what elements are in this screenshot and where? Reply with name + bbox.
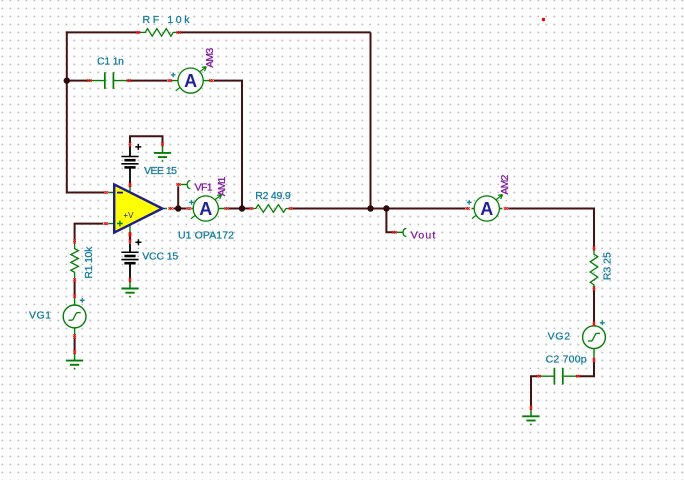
wire VEE to ground [130, 136, 163, 142]
wire noninverting input to R1 [75, 224, 104, 240]
svg-text:AM3: AM3 [204, 48, 216, 68]
node Vout branch [383, 205, 389, 211]
wire C1 left stub [67, 80, 88, 82]
wire opamp output [173, 208, 186, 210]
capacitor C2 700p [537, 354, 587, 385]
op-amp U1 OPA172 [104, 183, 234, 242]
svg-text:C1 1n: C1 1n [97, 55, 124, 67]
wire C2 to ground [531, 376, 537, 406]
ammeter AM2 [466, 174, 511, 221]
wire AM1 to R2 [229, 208, 250, 210]
svg-text:VG1: VG1 [29, 309, 51, 321]
wire R1 to VG1 [74, 282, 76, 294]
wire R3 to VG2 [593, 290, 595, 322]
wire Vout tap [386, 209, 392, 233]
svg-text:U1 OPA172: U1 OPA172 [178, 230, 234, 242]
svg-text:R3 25: R3 25 [602, 252, 614, 280]
wire VG1 to ground [74, 338, 76, 350]
node AM3 branch [239, 205, 245, 211]
resistor R2 49.9 [249, 190, 293, 213]
ground for VEE [154, 142, 171, 162]
source VG2 [548, 320, 606, 362]
wire R2 to AM2 [293, 208, 465, 210]
source VG1 [29, 294, 86, 339]
stray red dot [542, 18, 545, 21]
wire left rail [67, 31, 104, 192]
voltage pin Vout [392, 228, 435, 241]
ground for VG1 [66, 350, 83, 370]
wire VG2 to C2 [580, 362, 594, 376]
ground for VCC [121, 282, 138, 298]
svg-text:VEE 15: VEE 15 [144, 165, 177, 177]
svg-text:R2 49.9: R2 49.9 [255, 190, 291, 202]
capacitor C1 1n [87, 55, 131, 89]
battery VEE 15 [121, 142, 177, 187]
svg-text:VF1: VF1 [195, 181, 213, 193]
battery VCC 15 [121, 233, 178, 282]
svg-text:AM2: AM2 [499, 174, 511, 194]
node at opamp output [175, 205, 181, 211]
wire AM3 to output node [214, 81, 242, 209]
svg-text:VCC 15: VCC 15 [142, 250, 178, 262]
resistor RF 10k [136, 14, 190, 36]
ammeter AM3 [168, 48, 216, 94]
wire top feedback net [67, 32, 371, 208]
svg-text:AM1: AM1 [216, 177, 228, 197]
wire VF1 tap [177, 186, 179, 208]
svg-text:R1 10k: R1 10k [83, 246, 95, 279]
wire AM2 to R3 [508, 209, 594, 247]
resistor R1 10k [71, 239, 95, 282]
ammeter AM1 [187, 177, 229, 222]
node feedback branch [367, 205, 373, 211]
svg-text:Vout: Vout [411, 230, 436, 242]
svg-text:+V: +V [123, 211, 134, 220]
ground for C2 [522, 406, 539, 426]
svg-text:VG2: VG2 [548, 331, 571, 343]
svg-text:C2 700p: C2 700p [546, 354, 587, 366]
wire C1 to AM3 [131, 80, 168, 82]
resistor R3 25 [590, 246, 613, 290]
voltage pin VF1 [176, 181, 212, 194]
node C1 tap [64, 77, 70, 83]
